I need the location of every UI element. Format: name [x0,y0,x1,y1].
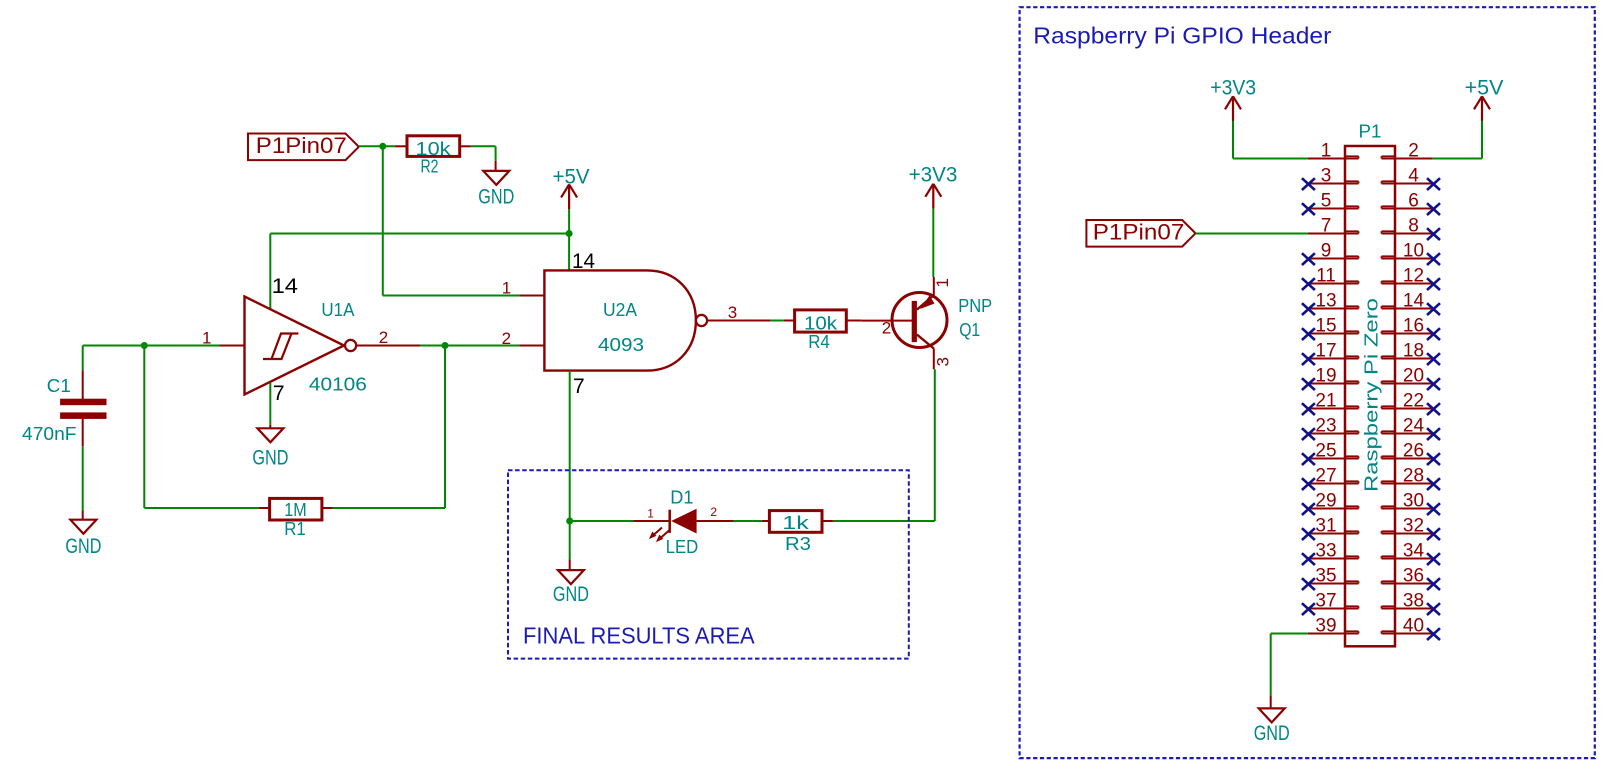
svg-text:PNP: PNP [958,296,992,316]
power arrow +3V3 (right) [1225,96,1241,121]
no-connect X on pin 8 [1427,228,1440,240]
no-connect X on pin 3 [1302,178,1315,190]
U1A pin 1 (input) [202,328,245,347]
no-connect X on pin 21 [1302,403,1315,415]
svg-text:27: 27 [1315,466,1336,487]
svg-text:1: 1 [502,279,511,298]
wire to R1 left [144,507,258,509]
svg-text:+5V: +5V [1465,77,1504,100]
wire down to GND in results box [569,521,571,559]
svg-text:6: 6 [1408,191,1419,212]
ground GND (under C1) [65,520,101,558]
P1 pin 34 [1382,541,1433,562]
svg-text:14: 14 [272,275,299,298]
no-connect X on pin 37 [1302,603,1315,615]
no-connect X on pin 31 [1302,528,1315,540]
svg-text:25: 25 [1315,441,1336,462]
svg-text:R2: R2 [421,157,439,177]
no-connect X on pin 40 [1427,628,1440,640]
svg-text:P1: P1 [1359,122,1382,142]
no-connect X on pin 24 [1427,428,1440,440]
no-connect X on pin 17 [1302,353,1315,365]
P1 pin 33 [1308,541,1359,562]
P1 pin 36 [1382,566,1433,587]
svg-text:2: 2 [710,505,717,519]
svg-text:17: 17 [1315,341,1336,362]
no-connect X on pin 33 [1302,553,1315,565]
no-connect X on pin 19 [1302,378,1315,390]
no-connect X on pin 29 [1302,503,1315,515]
svg-text:P1Pin07: P1Pin07 [1093,220,1185,245]
wire down to GND stub [495,146,497,161]
wire R3 to Q1 collector [833,520,935,522]
resistor R1 [259,498,333,539]
P1 pin 35 [1308,566,1359,587]
P1 pin 31 [1308,516,1359,537]
inverter U1A (40106 Schmitt trigger) [245,297,367,395]
no-connect X on pin 27 [1302,478,1315,490]
no-connect X on pin 28 [1427,478,1440,490]
svg-text:35: 35 [1315,566,1336,587]
svg-text:40106: 40106 [309,374,367,394]
no-connect X on pin 25 [1302,453,1315,465]
svg-text:Q1: Q1 [959,320,980,340]
svg-text:1: 1 [647,506,654,520]
P1 pin 16 [1382,316,1433,337]
P1 pin 4 [1382,166,1433,187]
P1 pin 10 [1382,241,1433,262]
P1 pin 27 [1308,466,1359,487]
svg-text:1: 1 [933,278,952,287]
svg-text:10k: 10k [804,314,838,334]
P1 pin 1 [1308,141,1359,162]
svg-text:GND: GND [1254,722,1290,745]
svg-text:10: 10 [1403,241,1424,262]
svg-text:FINAL RESULTS AREA: FINAL RESULTS AREA [523,622,755,648]
svg-text:9: 9 [1321,241,1332,262]
wire R2 to GND [471,145,496,147]
P1 pin 3 [1308,166,1359,187]
U2A pin 3 (output) [707,303,770,322]
svg-text:2: 2 [379,328,388,347]
svg-text:40: 40 [1403,616,1424,637]
svg-text:Raspberry Pi GPIO Header: Raspberry Pi GPIO Header [1033,23,1331,49]
wire +5V down [1481,121,1483,159]
no-connect X on pin 36 [1427,578,1440,590]
wire U1A pin 14 drop [269,234,271,309]
svg-text:GND: GND [478,186,514,209]
transistor Q1 (PNP) [861,277,992,369]
svg-text:U1A: U1A [321,300,354,320]
svg-text:C1: C1 [47,376,71,396]
power arrow +5V (left) [561,184,577,209]
wire LED cathode to R3 [734,520,762,522]
resistor R4 [784,310,861,352]
no-connect X on pin 23 [1302,428,1315,440]
svg-text:11: 11 [1316,266,1336,287]
node junction C1/R1 feedback tee [141,342,148,349]
P1 pin 20 [1382,366,1433,387]
P1 pin 17 [1308,341,1359,362]
svg-text:P1Pin07: P1Pin07 [256,133,347,158]
wire U2A pin 7 down to LED row [569,371,571,521]
svg-text:+3V3: +3V3 [1210,76,1256,99]
svg-text:14: 14 [572,250,595,273]
svg-text:34: 34 [1403,541,1425,562]
svg-text:U2A: U2A [603,300,637,320]
svg-text:3: 3 [728,303,737,322]
wire feedback down to R1 [143,346,145,509]
svg-text:+5V: +5V [553,165,590,188]
no-connect X on pin 38 [1427,603,1440,615]
no-connect X on pin 14 [1427,303,1440,315]
svg-text:4: 4 [1408,166,1419,187]
svg-text:12: 12 [1403,266,1424,287]
ground GND (under R2) [478,171,514,209]
wire +3V3 to Q1 emitter [932,209,934,277]
GND stub (right) [1270,696,1272,708]
P1 pin 40 [1382,616,1433,637]
wire C1 top lead [82,346,84,371]
svg-text:GND: GND [65,535,101,558]
svg-text:+3V3: +3V3 [909,163,958,186]
no-connect X on pin 30 [1427,503,1440,515]
ground GND (under U1A) [252,428,288,469]
NAND gate U2A (4093) [544,270,707,370]
svg-text:16: 16 [1403,316,1424,337]
node junction P1Pin07/R2 tee [379,143,386,150]
svg-text:2: 2 [882,318,891,337]
svg-text:7: 7 [273,382,285,405]
power arrow +5V (right) [1474,96,1490,121]
wire C1 to U1A pin 1 [83,345,220,347]
dashed box FINAL RESULTS AREA [508,470,909,658]
svg-text:24: 24 [1403,416,1425,437]
GND stub under R2 [495,161,497,171]
wire +3V3 down [1232,121,1234,159]
svg-text:23: 23 [1315,416,1336,437]
svg-text:2: 2 [1408,141,1419,162]
svg-text:32: 32 [1403,516,1424,537]
svg-text:R1: R1 [284,519,306,539]
svg-text:33: 33 [1315,541,1336,562]
no-connect X on pin 20 [1427,378,1440,390]
svg-text:7: 7 [573,375,585,398]
dashed box Raspberry Pi GPIO Header [1020,7,1595,758]
no-connect X on pin 34 [1427,553,1440,565]
svg-text:GND: GND [553,583,589,606]
P1 pin 9 [1308,241,1359,262]
P1 pin 37 [1308,591,1359,612]
wire P1 pin 39 to GND [1271,633,1308,635]
svg-text:15: 15 [1315,316,1336,337]
svg-text:470nF: 470nF [22,424,77,444]
no-connect X on pin 15 [1302,328,1315,340]
no-connect X on pin 16 [1427,328,1440,340]
wire P1Pin07 label to R2 [359,145,395,147]
P1 pin 21 [1308,391,1359,412]
svg-text:1: 1 [1321,141,1332,162]
svg-text:8: 8 [1408,216,1419,237]
P1 pin 25 [1308,441,1359,462]
svg-text:14: 14 [1403,291,1425,312]
P1 pin 32 [1382,516,1433,537]
P1 pin 23 [1308,416,1359,437]
wire +5V down to U2A pin 14 [568,209,570,270]
wire +3V3 to P1 pin 1 [1233,158,1308,160]
wire U2A output to R4 [770,320,784,322]
wire to U2A pin 1 [383,295,520,297]
wire to LED anode [570,520,634,522]
wire junction down to U2A pin1 row [382,146,384,295]
wire C1 bottom to GND [82,446,84,510]
P1 pin 11 [1308,266,1359,287]
svg-text:13: 13 [1315,291,1336,312]
wire R1 to output node [333,507,445,509]
svg-text:30: 30 [1403,491,1424,512]
svg-text:22: 22 [1403,391,1424,412]
svg-text:31: 31 [1315,516,1336,537]
P1 pin 2 [1382,141,1433,162]
no-connect X on pin 26 [1427,453,1440,465]
resistor R3 [762,511,833,554]
connector P1 (40-pin header) [1345,122,1395,647]
no-connect X on pin 22 [1427,403,1440,415]
P1 pin 7 [1308,216,1359,237]
U2A pin 2 [502,329,545,348]
svg-text:3: 3 [1321,166,1332,187]
svg-text:Raspberry Pi Zero: Raspberry Pi Zero [1361,298,1381,492]
svg-text:1k: 1k [782,513,810,533]
wire P1Pin07 to P1 pin 7 [1196,233,1308,235]
svg-text:38: 38 [1403,591,1424,612]
P1 pin 5 [1308,191,1359,212]
GND stub in results box [569,559,571,570]
svg-text:28: 28 [1403,466,1424,487]
LED D1 [633,488,734,558]
svg-text:GND: GND [252,446,288,469]
P1 pin 15 [1308,316,1359,337]
no-connect X on pin 12 [1427,278,1440,290]
wire GND drop (right) [1270,634,1272,697]
resistor R2 [395,136,471,177]
hierarchical label P1Pin07 (left) [248,133,359,160]
P1 pin 29 [1308,491,1359,512]
svg-text:26: 26 [1403,441,1424,462]
svg-text:5: 5 [1321,191,1332,212]
node junction +5V rail / U2A pin14 [566,230,573,237]
svg-text:LED: LED [666,537,699,557]
U1A pin 2 (output) [357,328,421,347]
wire +5V to P1 pin 2 [1433,158,1482,160]
svg-text:37: 37 [1315,591,1336,612]
wire up to U1A output [444,346,446,509]
svg-text:7: 7 [1321,216,1332,237]
wire U1A output to U2A pin 2 [420,345,519,347]
no-connect X on pin 35 [1302,578,1315,590]
no-connect X on pin 32 [1427,528,1440,540]
svg-text:18: 18 [1403,341,1424,362]
svg-text:R3: R3 [785,534,811,554]
svg-text:36: 36 [1403,566,1424,587]
P1 pin 12 [1382,266,1433,287]
P1 pin 6 [1382,191,1433,212]
svg-text:4093: 4093 [598,335,644,355]
P1 pin 13 [1308,291,1359,312]
svg-text:19: 19 [1315,366,1336,387]
GND stub under U1A [269,425,271,429]
no-connect X on pin 9 [1302,253,1315,265]
GND stub under C1 [82,510,84,519]
no-connect X on pin 5 [1302,203,1315,215]
svg-text:39: 39 [1315,616,1336,637]
P1 pin 24 [1382,416,1433,437]
svg-text:21: 21 [1315,391,1336,412]
P1 pin 8 [1382,216,1433,237]
node junction LED row tee [566,518,573,525]
no-connect X on pin 10 [1427,253,1440,265]
P1 pin 18 [1382,341,1433,362]
U2A pin 1 [502,279,545,298]
P1 pin 22 [1382,391,1433,412]
ground GND (GPIO header) [1254,708,1290,745]
svg-text:20: 20 [1403,366,1424,387]
svg-text:D1: D1 [670,488,693,508]
svg-text:2: 2 [502,329,511,348]
capacitor C1 [22,370,107,446]
power arrow +3V3 (left) [925,184,941,209]
ground GND (results box) [553,570,589,606]
hierarchical label P1Pin07 (right) [1086,220,1195,247]
svg-text:29: 29 [1315,491,1336,512]
svg-text:1M: 1M [284,500,306,520]
no-connect X on pin 11 [1302,278,1315,290]
no-connect X on pin 18 [1427,353,1440,365]
svg-text:1: 1 [202,328,211,347]
P1 pin 14 [1382,291,1433,312]
power +5V (left) [553,165,590,188]
svg-text:R4: R4 [808,332,830,352]
node junction U1A output / R1 [442,342,449,349]
wire Q1 collector down [934,369,936,521]
no-connect X on pin 6 [1427,203,1440,215]
P1 pin 26 [1382,441,1433,462]
no-connect X on pin 13 [1302,303,1315,315]
P1 pin 30 [1382,491,1433,512]
P1 pin 28 [1382,466,1433,487]
P1 pin 39 [1308,616,1359,637]
svg-text:3: 3 [933,357,952,366]
wire U1A pin 7 to GND [269,382,271,424]
wire +5V rail to U1A [270,233,569,235]
no-connect X on pin 4 [1427,178,1440,190]
P1 pin 19 [1308,366,1359,387]
P1 pin 38 [1382,591,1433,612]
